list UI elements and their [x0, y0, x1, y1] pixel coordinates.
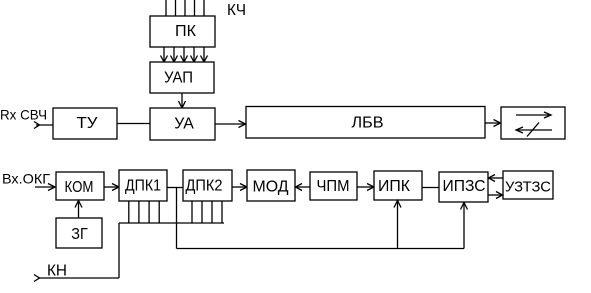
- svg-text:ЧПМ: ЧПМ: [317, 178, 350, 195]
- wire input Вх.ОКГ into КОМ (right arrow): [35, 184, 55, 191]
- svg-text:ИПК: ИПК: [378, 178, 411, 195]
- block ТУ: [53, 108, 117, 139]
- wire КОМ to ДПК1 (right arrow): [104, 184, 119, 191]
- block ПК: [150, 16, 215, 47]
- block ЧПМ: [310, 172, 357, 200]
- svg-text:Rx СВЧ: Rx СВЧ: [0, 107, 47, 123]
- block ИПЗС: [439, 172, 488, 202]
- svg-text:ИПЗС: ИПЗС: [443, 178, 486, 195]
- wire ДПК1 to ДПК2: [167, 187, 183, 189]
- wire ИПЗС to УЗТЗС (right arrow, bottom): [488, 192, 503, 199]
- block МОД: [247, 170, 295, 201]
- svg-text:ДПК2: ДПК2: [186, 178, 223, 195]
- wire feedback horizontal to ИПК and ИПЗС: [177, 248, 465, 250]
- wire УАП to УА (down arrow): [179, 93, 186, 108]
- svg-text:КОМ: КОМ: [65, 179, 94, 196]
- block УЗТЗС: [503, 171, 553, 199]
- svg-text:ТУ: ТУ: [77, 115, 99, 132]
- wire ТУ to УА: [117, 123, 150, 125]
- wire ЧПМ to ИПК (right arrow): [357, 184, 374, 191]
- block ИПК: [374, 171, 422, 200]
- svg-text:ЗГ: ЗГ: [71, 226, 88, 243]
- wire branch from ДПК1-ДПК2 node down: [176, 188, 178, 249]
- svg-text:ПК: ПК: [175, 23, 197, 40]
- block УА: [150, 108, 215, 140]
- svg-text:Вх.ОКГ: Вх.ОКГ: [2, 171, 50, 187]
- block ДПК1: [119, 170, 167, 201]
- wire arrows ПК to УАП (5 down arrows): [161, 47, 208, 62]
- wire comb bus horizontal: [119, 222, 224, 224]
- wire УА to ЛБВ (right arrow): [215, 121, 246, 128]
- wire input Rx СВЧ into ТУ: [34, 122, 53, 129]
- svg-text:ДПК1: ДПК1: [125, 178, 161, 195]
- wire КН input: [34, 275, 119, 282]
- svg-text:УА: УА: [174, 116, 194, 133]
- block УАП: [150, 62, 214, 93]
- wire ИПК to ИПЗС: [422, 187, 439, 189]
- block КОМ: [56, 172, 104, 200]
- svg-text:УАП: УАП: [164, 70, 193, 87]
- wire comb bus down to КН line: [118, 223, 120, 278]
- wire up into ИПК (up arrow): [394, 201, 401, 249]
- block ЗГ: [56, 218, 102, 248]
- svg-text:УЗТЗС: УЗТЗС: [505, 179, 551, 196]
- wire up into ИПЗС (up arrow): [461, 203, 468, 249]
- wire УЗТЗС to ИПЗС (left arrow, top): [489, 175, 504, 182]
- block ЛБВ: [246, 107, 485, 139]
- wire ЧПМ to МОД (left arrow): [296, 184, 311, 191]
- comb bus under ДПК1 (4 lines): [129, 201, 159, 223]
- wire ЗГ to КОМ (up arrow): [75, 201, 82, 219]
- svg-text:КН: КН: [47, 263, 67, 280]
- block isolator (ferrite valve symbol): [501, 107, 565, 139]
- wire ЛБВ to isolator (right arrow): [485, 120, 501, 127]
- wire ДПК2 to МОД (right arrow): [232, 184, 247, 191]
- comb bus under ДПК2 (4 lines): [192, 201, 222, 223]
- svg-text:ЛБВ: ЛБВ: [352, 115, 384, 132]
- block ДПК2: [183, 170, 232, 201]
- svg-text:КЧ: КЧ: [227, 2, 246, 19]
- bus lines into ПК (5 input lines, net КЧ): [166, 0, 204, 16]
- svg-text:МОД: МОД: [253, 179, 289, 196]
